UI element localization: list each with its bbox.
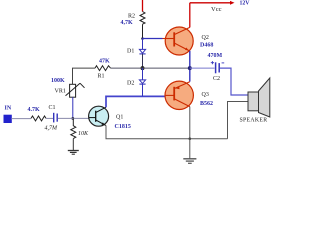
svg-text:C1: C1: [49, 105, 56, 111]
svg-text:4,7M: 4,7M: [45, 125, 59, 132]
svg-text:4,7K: 4,7K: [121, 20, 134, 26]
node junction VR1/10K/input: [71, 117, 74, 120]
transistor Q1 C1815: [89, 106, 131, 130]
svg-text:R2: R2: [128, 14, 135, 20]
wire D2 to Q3 base node: [142, 84, 144, 96]
wire C2 to speaker top terminal: [220, 68, 248, 95]
svg-text:Q1: Q1: [116, 115, 123, 121]
svg-text:Q2: Q2: [202, 35, 209, 41]
node junction ground rail / Q3 collector: [189, 137, 192, 140]
wire R2 bottom to base junction: [142, 24, 144, 38]
capacitor C2 470M: [208, 53, 225, 82]
wire C1 to Q1 base: [58, 117, 89, 119]
wire Q1 collector riser to Q3 base node (staircase): [106, 96, 143, 107]
svg-text:10K: 10K: [78, 131, 89, 137]
node IN terminal: [4, 106, 12, 123]
svg-text:IN: IN: [5, 106, 12, 112]
wire ground rail (Q1 emitter to speaker branch): [106, 125, 228, 138]
capacitor C1: [45, 105, 59, 132]
ground right: [183, 159, 196, 164]
wire Q3 collector down to ground rail: [189, 107, 191, 139]
wire 10K to left ground: [72, 139, 74, 151]
wire ground stem under Q3: [189, 139, 191, 159]
wire VR1 bottom to input line: [72, 97, 74, 118]
wire Q2 collector to Vcc rail: [189, 3, 191, 28]
svg-text:B562: B562: [200, 101, 213, 107]
svg-text:D2: D2: [127, 81, 134, 87]
transistor Q3 B562: [165, 81, 213, 109]
svg-text:VR1: VR1: [55, 89, 66, 95]
wire R2 top supply stub: [142, 0, 144, 12]
svg-text:D1: D1: [127, 49, 134, 55]
svg-text:C1815: C1815: [115, 124, 131, 130]
svg-text:Q3: Q3: [202, 92, 209, 98]
resistor 10K: [71, 118, 89, 138]
svg-text:47K: 47K: [99, 58, 110, 64]
wire VR1 riser and top rail to R1: [73, 68, 96, 84]
wire resistor to C1: [46, 117, 53, 119]
node output junction: [188, 66, 192, 70]
svg-text:C2: C2: [213, 76, 220, 82]
svg-text:SPEAKER: SPEAKER: [240, 118, 268, 124]
wire Vcc red rail: [190, 1, 235, 5]
wire Q2 emitter to output node to Q3 emitter: [189, 51, 191, 82]
potentiometer VR1: [51, 78, 85, 97]
diode D1: [127, 49, 146, 55]
transistor Q2 D468: [163, 27, 214, 55]
node junction diodes/R1/output-rail: [141, 66, 145, 70]
wire speaker bottom terminal to ground rail: [228, 102, 249, 139]
svg-text:470M: 470M: [208, 53, 223, 59]
wire node to Q3 base: [143, 95, 166, 97]
diode D2: [127, 80, 146, 87]
svg-text:4.7K: 4.7K: [28, 107, 41, 113]
resistor R2: [121, 12, 146, 26]
resistor R1 47K: [95, 58, 111, 79]
wire R1 to junction: [111, 67, 190, 69]
ground left: [68, 151, 79, 155]
svg-text:R1: R1: [98, 73, 105, 79]
wire IN to 4.7K resistor: [11, 118, 31, 120]
svg-text:Vcc: Vcc: [211, 6, 222, 13]
wire junction to D1: [142, 39, 144, 50]
svg-text:12V: 12V: [240, 1, 251, 7]
svg-text:D468: D468: [200, 42, 213, 48]
wire D1 to mid junction: [142, 54, 144, 68]
wire Q2 base wire: [143, 38, 163, 40]
speaker SPEAKER: [240, 78, 270, 124]
svg-text:100K: 100K: [51, 78, 65, 84]
node junction R2/D1/Q2-base: [141, 37, 144, 40]
wire output node to C2: [190, 67, 215, 69]
wire D2 top connection: [142, 68, 144, 80]
resistor 4.7K input: [28, 107, 47, 121]
